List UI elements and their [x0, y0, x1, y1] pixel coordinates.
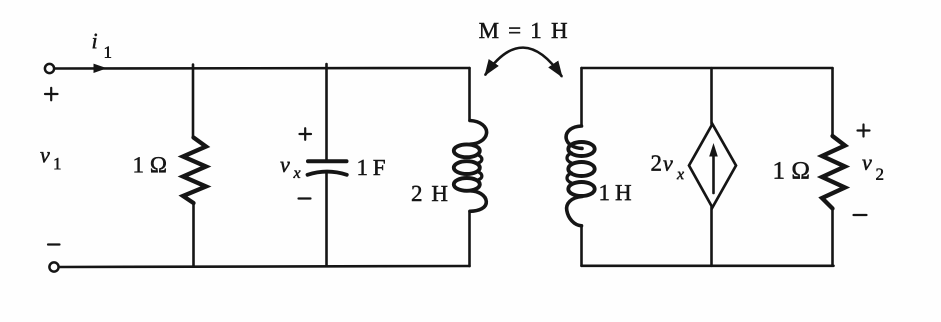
- svg-text:1: 1: [598, 180, 610, 205]
- svg-text:v: v: [280, 152, 290, 177]
- svg-text:1 Ω: 1 Ω: [132, 152, 167, 177]
- svg-text:1 Ω: 1 Ω: [772, 158, 810, 185]
- svg-text:v: v: [663, 151, 673, 176]
- svg-text:1 F: 1 F: [356, 155, 385, 180]
- svg-text:2 H: 2 H: [411, 181, 448, 206]
- svg-text:i: i: [92, 28, 98, 53]
- svg-text:2: 2: [875, 165, 884, 184]
- svg-text:1: 1: [104, 43, 113, 62]
- svg-text:v: v: [40, 142, 50, 167]
- svg-text:H: H: [615, 180, 632, 205]
- svg-text:2: 2: [650, 151, 662, 176]
- svg-text:x: x: [676, 166, 684, 183]
- svg-text:x: x: [292, 165, 300, 182]
- svg-text:M = 1 H: M = 1 H: [479, 18, 568, 43]
- svg-text:v: v: [862, 150, 872, 175]
- svg-text:1: 1: [53, 154, 62, 173]
